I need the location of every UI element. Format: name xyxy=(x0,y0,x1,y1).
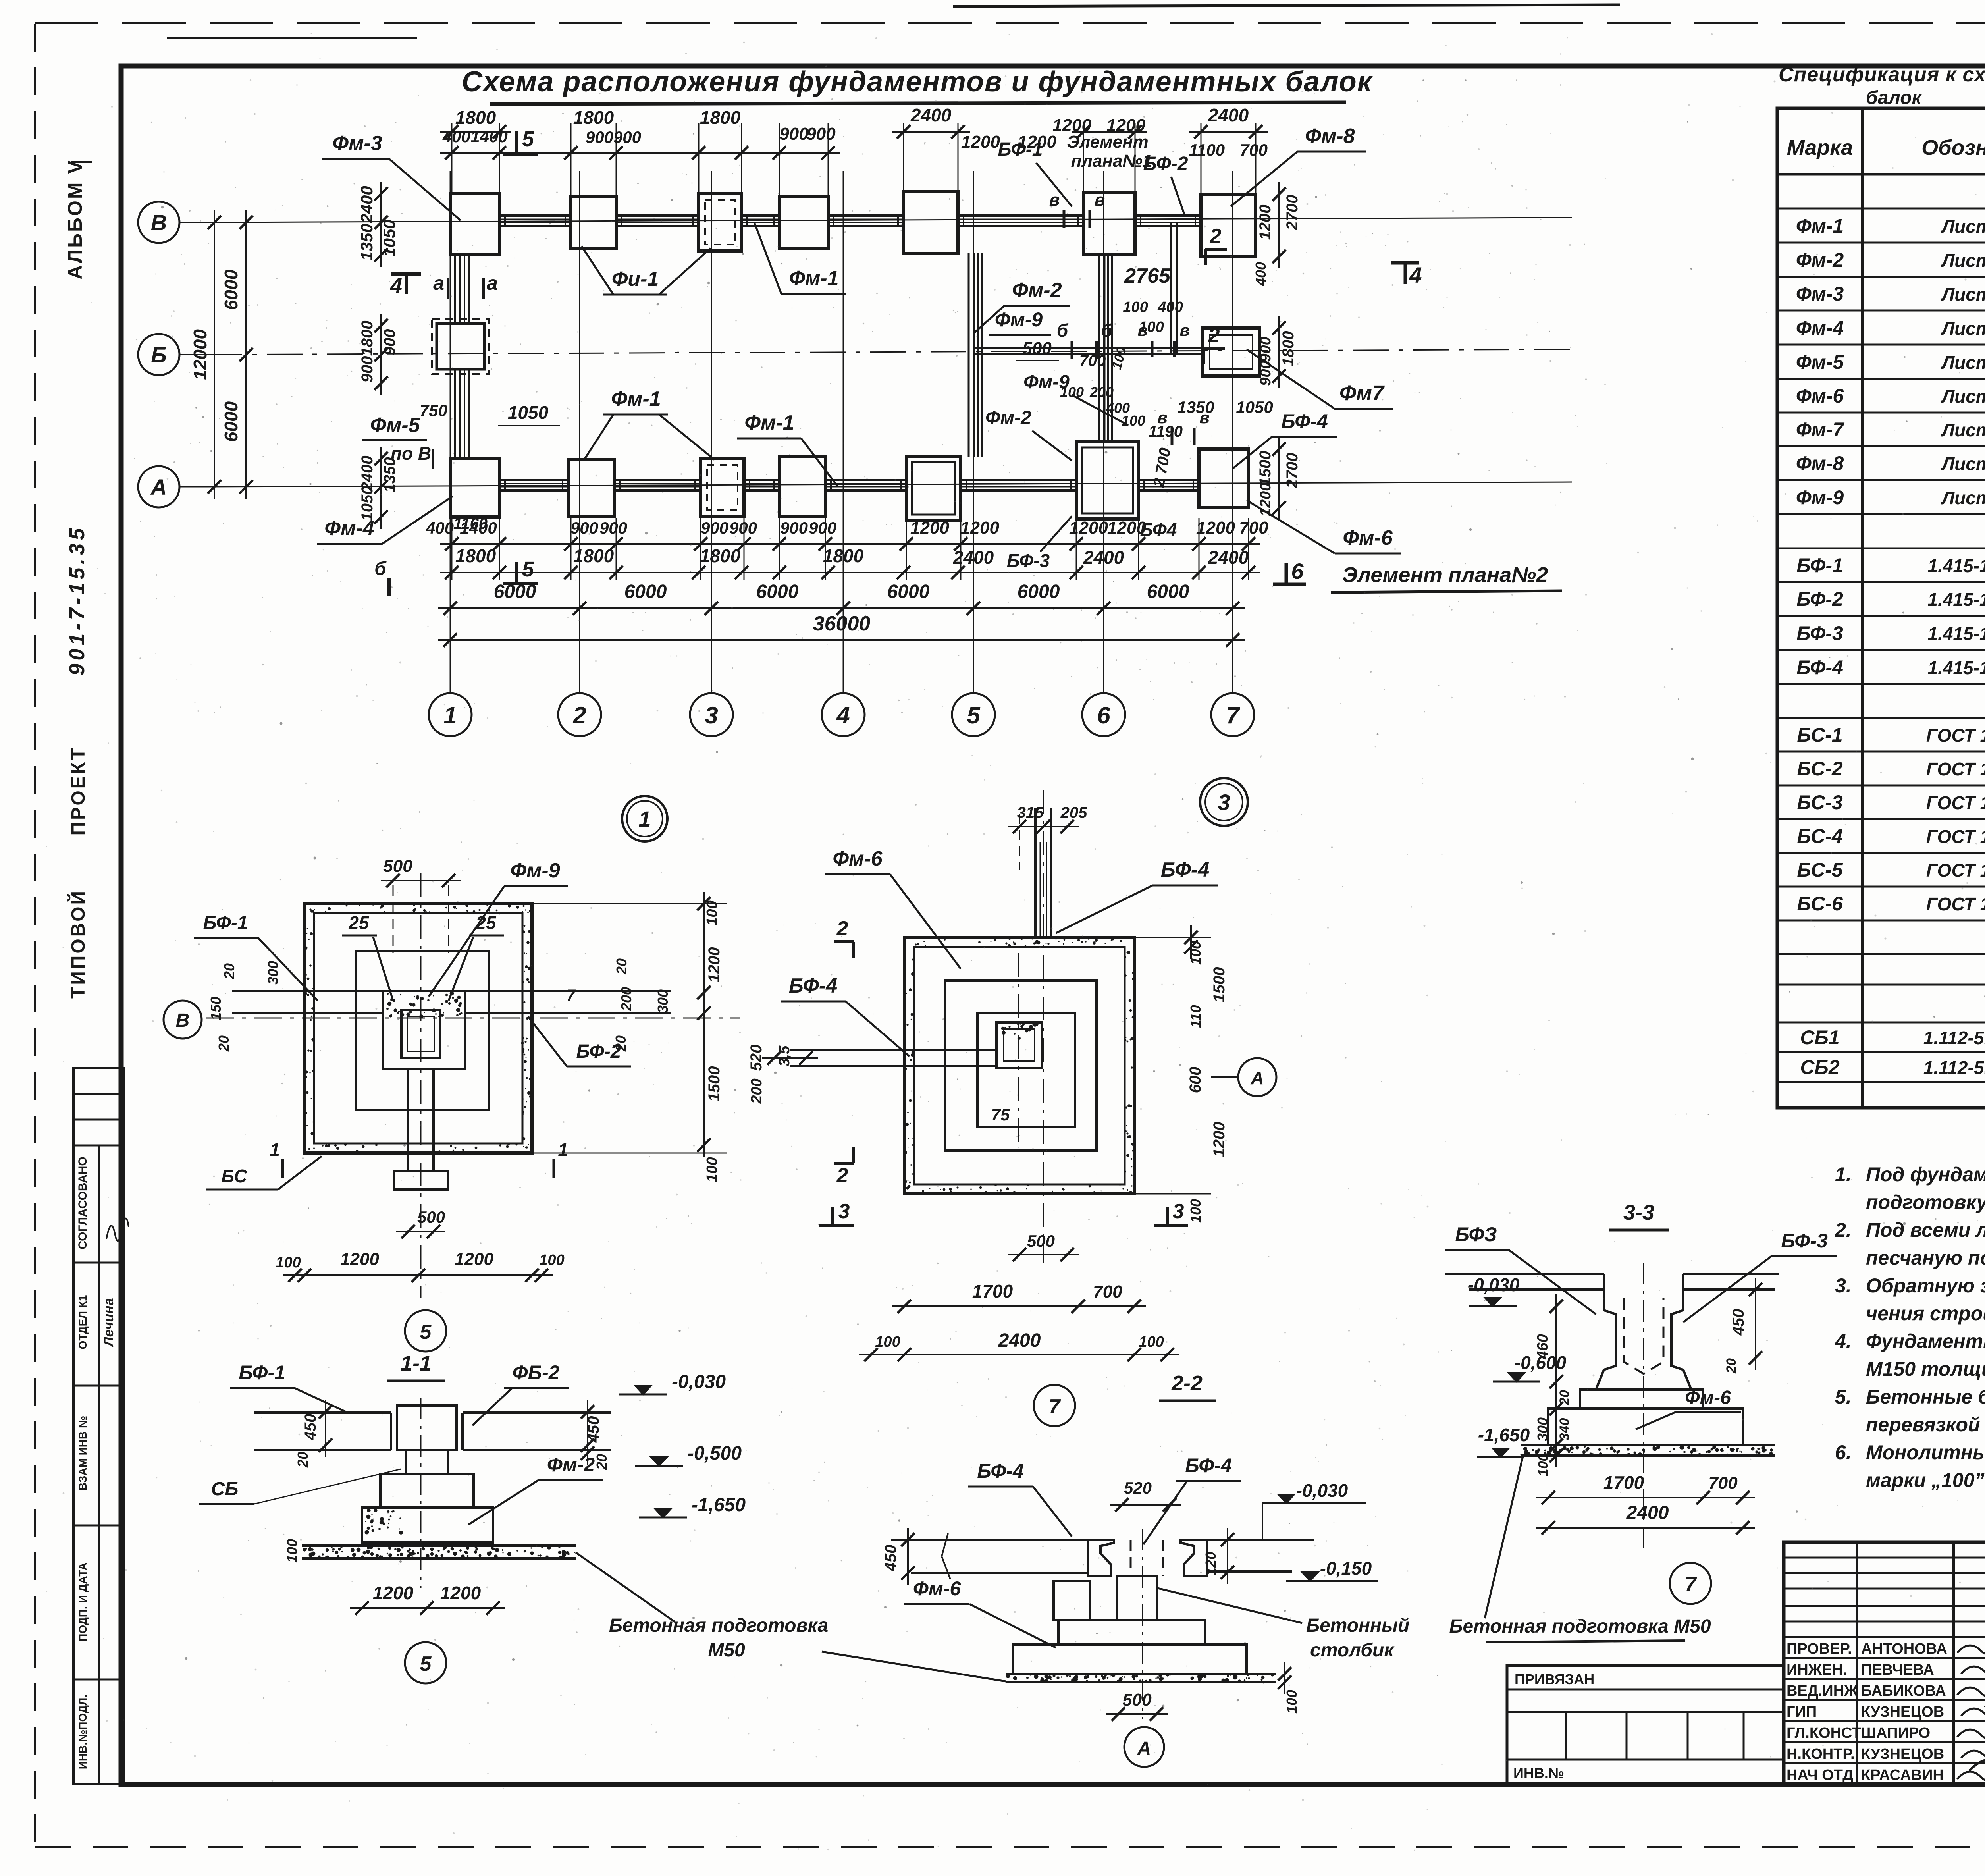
svg-text:Лист КЖ-4: Лист КЖ-4 xyxy=(1941,216,1985,237)
svg-text:900: 900 xyxy=(613,128,641,147)
svg-text:в: в xyxy=(1199,408,1209,427)
svg-text:БФ-2: БФ-2 xyxy=(1143,153,1188,174)
svg-text:Фи-1: Фи-1 xyxy=(612,268,659,291)
svg-text:Обозначение: Обозначение xyxy=(1921,136,1985,160)
svg-text:3.: 3. xyxy=(1835,1274,1852,1297)
svg-text:500: 500 xyxy=(1027,1232,1055,1250)
svg-text:36000: 36000 xyxy=(813,612,871,635)
svg-text:5: 5 xyxy=(967,702,981,729)
svg-text:Схема расположения фундаментов: Схема расположения фундаментов и фундаме… xyxy=(462,66,1373,98)
svg-text:1500: 1500 xyxy=(705,1066,723,1102)
svg-text:Бетонный: Бетонный xyxy=(1306,1615,1409,1636)
svg-text:3-3: 3-3 xyxy=(1623,1201,1654,1224)
svg-text:СБ1: СБ1 xyxy=(1800,1026,1839,1049)
svg-text:100: 100 xyxy=(1284,1690,1300,1714)
svg-text:Лист КЖ-7: Лист КЖ-7 xyxy=(1941,386,1985,407)
svg-text:2700: 2700 xyxy=(1284,195,1301,231)
svg-text:900: 900 xyxy=(570,519,598,537)
svg-text:700: 700 xyxy=(1239,518,1268,538)
svg-text:А: А xyxy=(1137,1738,1151,1759)
svg-text:Фм-7: Фм-7 xyxy=(1796,418,1845,441)
svg-text:1200: 1200 xyxy=(1069,518,1108,538)
svg-text:перевязкой швов не менее 30: перевязкой швов не менее 300мм. xyxy=(1866,1413,1985,1436)
svg-text:200: 200 xyxy=(748,1078,765,1104)
svg-text:200: 200 xyxy=(1089,384,1114,400)
svg-text:ВЗАМ ИНВ №: ВЗАМ ИНВ № xyxy=(77,1416,89,1490)
svg-text:6: 6 xyxy=(1291,559,1304,584)
svg-text:СОГЛАСОВАНО: СОГЛАСОВАНО xyxy=(76,1157,89,1249)
svg-text:200: 200 xyxy=(618,987,634,1011)
svg-text:20: 20 xyxy=(221,963,237,979)
svg-text:БС-6: БС-6 xyxy=(1797,893,1843,915)
svg-text:Спецификация к схеме расположе: Спецификация к схеме расположения фундам… xyxy=(1779,63,1985,86)
svg-text:75: 75 xyxy=(991,1105,1010,1124)
svg-text:1200: 1200 xyxy=(1257,483,1274,517)
svg-text:4: 4 xyxy=(390,274,402,298)
svg-text:2.: 2. xyxy=(1835,1219,1852,1241)
svg-text:НАЧ ОТД: НАЧ ОТД xyxy=(1786,1767,1853,1783)
svg-text:20: 20 xyxy=(594,1454,610,1470)
svg-text:1100: 1100 xyxy=(1189,141,1225,159)
svg-text:ГОСТ 13579-78: ГОСТ 13579-78 xyxy=(1926,894,1985,914)
svg-text:7: 7 xyxy=(1685,1573,1697,1596)
svg-text:Лист КЖ-5: Лист КЖ-5 xyxy=(1941,488,1985,508)
svg-text:700: 700 xyxy=(1079,352,1106,370)
svg-text:БФ-1: БФ-1 xyxy=(998,139,1043,160)
svg-text:750: 750 xyxy=(420,401,447,420)
svg-text:4: 4 xyxy=(1409,262,1422,287)
svg-text:6000: 6000 xyxy=(1018,581,1060,602)
svg-text:Под фундаментами под колонны п: Под фундаментами под колонны предусмотре… xyxy=(1866,1163,1985,1186)
svg-text:2400: 2400 xyxy=(1208,547,1249,568)
svg-text:БФ-4: БФ-4 xyxy=(1281,410,1328,432)
svg-text:900: 900 xyxy=(780,519,808,537)
svg-text:7: 7 xyxy=(567,987,576,1004)
svg-text:ПРИВЯЗАН: ПРИВЯЗАН xyxy=(1515,1671,1594,1687)
svg-text:1050: 1050 xyxy=(508,402,549,423)
svg-text:4: 4 xyxy=(836,702,850,729)
svg-text:Фм-1: Фм-1 xyxy=(744,411,794,434)
svg-text:25: 25 xyxy=(475,912,497,933)
svg-text:1.415-1; Вып.1: 1.415-1; Вып.1 xyxy=(1927,623,1985,644)
svg-text:300: 300 xyxy=(655,989,671,1013)
svg-text:М50: М50 xyxy=(708,1640,745,1661)
svg-text:6: 6 xyxy=(1097,702,1110,729)
svg-text:1: 1 xyxy=(558,1139,568,1160)
svg-text:А: А xyxy=(1250,1068,1264,1088)
svg-text:1500: 1500 xyxy=(1210,967,1228,1003)
svg-text:400: 400 xyxy=(1157,299,1183,316)
svg-text:БФ-4: БФ-4 xyxy=(1796,656,1843,679)
svg-text:А: А xyxy=(150,474,167,499)
svg-text:марки „100”.: марки „100”. xyxy=(1866,1469,1985,1491)
svg-text:7: 7 xyxy=(1049,1395,1061,1418)
svg-text:Фм-1: Фм-1 xyxy=(611,388,661,411)
svg-text:1050: 1050 xyxy=(380,220,399,256)
svg-text:700: 700 xyxy=(1093,1282,1122,1301)
svg-text:450: 450 xyxy=(302,1414,319,1441)
svg-text:плана№1: плана№1 xyxy=(1071,151,1152,171)
svg-text:-0,030: -0,030 xyxy=(1468,1274,1520,1295)
svg-text:БФЗ: БФЗ xyxy=(1455,1223,1497,1246)
svg-text:Фм-2: Фм-2 xyxy=(985,407,1031,428)
svg-text:2700: 2700 xyxy=(1284,453,1301,489)
svg-text:ИНВ.№: ИНВ.№ xyxy=(1513,1765,1564,1781)
svg-text:б: б xyxy=(1057,320,1069,341)
svg-text:1800: 1800 xyxy=(455,107,496,128)
svg-text:ГОСТ 13579-78: ГОСТ 13579-78 xyxy=(1926,725,1985,746)
svg-text:1.415-1; Вып.1: 1.415-1; Вып.1 xyxy=(1927,555,1985,576)
svg-text:1200: 1200 xyxy=(340,1249,379,1269)
svg-text:БФ-4: БФ-4 xyxy=(1185,1454,1232,1477)
svg-text:ПРОЕКТ: ПРОЕКТ xyxy=(68,746,89,835)
svg-text:3: 3 xyxy=(705,702,718,729)
svg-text:1800: 1800 xyxy=(823,546,864,566)
svg-text:340: 340 xyxy=(1557,1418,1572,1441)
svg-text:1800: 1800 xyxy=(455,546,496,566)
svg-text:900: 900 xyxy=(701,519,728,537)
svg-text:ПРОВЕР.: ПРОВЕР. xyxy=(1786,1641,1852,1657)
svg-text:1800: 1800 xyxy=(700,546,741,566)
svg-text:900: 900 xyxy=(381,329,399,356)
svg-text:900: 900 xyxy=(806,124,836,144)
svg-text:в: в xyxy=(1137,321,1147,339)
svg-text:ПЕВЧЕВА: ПЕВЧЕВА xyxy=(1861,1662,1934,1678)
svg-text:400: 400 xyxy=(426,519,454,537)
svg-text:АЛЬБОМ V: АЛЬБОМ V xyxy=(64,159,86,279)
svg-text:ГОСТ 13579-78: ГОСТ 13579-78 xyxy=(1926,860,1985,881)
svg-text:205: 205 xyxy=(1060,804,1087,821)
svg-text:2400: 2400 xyxy=(910,105,952,125)
svg-text:Фм-1: Фм-1 xyxy=(1796,215,1844,237)
svg-text:1800: 1800 xyxy=(700,107,741,128)
svg-text:Фм-4: Фм-4 xyxy=(1796,317,1844,339)
svg-text:6000: 6000 xyxy=(887,581,930,602)
svg-text:Лечина: Лечина xyxy=(101,1298,116,1347)
svg-text:500: 500 xyxy=(417,1208,445,1226)
svg-text:2: 2 xyxy=(836,1164,848,1187)
svg-text:БС-4: БС-4 xyxy=(1797,825,1842,847)
svg-text:20: 20 xyxy=(216,1035,232,1052)
svg-text:Лист КЖ-7: Лист КЖ-7 xyxy=(1941,284,1985,305)
svg-text:Фм-9: Фм-9 xyxy=(1796,486,1844,509)
svg-text:3: 3 xyxy=(838,1200,850,1223)
svg-text:ШАПИРО: ШАПИРО xyxy=(1861,1725,1930,1741)
svg-text:110: 110 xyxy=(1187,1005,1204,1028)
svg-text:2: 2 xyxy=(1210,225,1222,248)
svg-text:КУЗНЕЦОВ: КУЗНЕЦОВ xyxy=(1861,1746,1944,1762)
svg-text:Фм-5: Фм-5 xyxy=(1796,351,1844,373)
svg-text:20: 20 xyxy=(1724,1358,1739,1374)
svg-text:5: 5 xyxy=(522,557,534,581)
svg-text:БС-3: БС-3 xyxy=(1797,791,1843,814)
svg-text:400: 400 xyxy=(1253,262,1269,286)
svg-text:ГОСТ 13579-78: ГОСТ 13579-78 xyxy=(1926,759,1985,779)
svg-text:Фм-8: Фм-8 xyxy=(1796,452,1844,474)
svg-text:Марка: Марка xyxy=(1787,136,1853,160)
svg-text:БФ-3: БФ-3 xyxy=(1007,550,1050,571)
svg-text:100: 100 xyxy=(704,1157,721,1182)
svg-text:300: 300 xyxy=(265,961,281,985)
svg-text:100: 100 xyxy=(704,900,721,925)
svg-text:Лист КЖ-7: Лист КЖ-7 xyxy=(1941,318,1985,339)
svg-text:Бетонная подготовка М50: Бетонная подготовка М50 xyxy=(1449,1616,1711,1637)
svg-text:-0,030: -0,030 xyxy=(672,1371,726,1392)
svg-text:-0,150: -0,150 xyxy=(1320,1558,1372,1579)
svg-text:СБ: СБ xyxy=(211,1479,239,1500)
svg-text:3,5: 3,5 xyxy=(776,1045,793,1067)
svg-text:1200: 1200 xyxy=(961,132,1000,152)
svg-text:5.: 5. xyxy=(1835,1386,1852,1408)
svg-text:Фм-6: Фм-6 xyxy=(1685,1387,1731,1408)
svg-text:1500: 1500 xyxy=(1257,451,1274,486)
svg-text:700: 700 xyxy=(1708,1473,1738,1493)
svg-text:6000: 6000 xyxy=(624,581,667,602)
svg-text:150: 150 xyxy=(208,997,224,1020)
svg-text:315: 315 xyxy=(1017,804,1044,821)
svg-text:2765: 2765 xyxy=(1124,264,1171,287)
svg-text:СБ2: СБ2 xyxy=(1800,1056,1840,1078)
svg-text:2: 2 xyxy=(572,702,586,729)
svg-text:20: 20 xyxy=(613,958,630,975)
svg-text:700: 700 xyxy=(1240,141,1268,159)
svg-text:БФ-4: БФ-4 xyxy=(977,1460,1024,1482)
svg-text:500: 500 xyxy=(383,856,412,876)
svg-text:Фм-9: Фм-9 xyxy=(510,859,560,882)
svg-text:1800: 1800 xyxy=(573,107,614,128)
svg-text:БФ-3: БФ-3 xyxy=(1796,622,1843,644)
svg-text:ОТДЕЛ К1: ОТДЕЛ К1 xyxy=(77,1295,89,1350)
svg-text:3: 3 xyxy=(1218,790,1230,815)
svg-text:Лист КЖ-6: Лист КЖ-6 xyxy=(1941,453,1985,474)
svg-text:1800: 1800 xyxy=(573,546,614,566)
svg-text:БФ-4: БФ-4 xyxy=(1161,858,1209,881)
svg-text:Фм-2: Фм-2 xyxy=(547,1454,595,1476)
svg-text:ГОСТ 13579-78: ГОСТ 13579-78 xyxy=(1926,792,1985,813)
svg-text:Элемент плана№2: Элемент плана№2 xyxy=(1342,563,1548,587)
svg-text:300: 300 xyxy=(1534,1417,1551,1441)
svg-text:В: В xyxy=(176,1010,190,1031)
svg-text:100: 100 xyxy=(1122,413,1145,429)
svg-text:1.415-1; Вып.1: 1.415-1; Вып.1 xyxy=(1927,657,1985,678)
svg-text:столбик: столбик xyxy=(1310,1640,1395,1661)
svg-text:100: 100 xyxy=(284,1539,300,1563)
svg-text:БАБИКОВА: БАБИКОВА xyxy=(1861,1683,1946,1699)
svg-text:100: 100 xyxy=(276,1254,301,1271)
svg-text:1200: 1200 xyxy=(440,1583,481,1603)
svg-text:В: В xyxy=(151,210,167,235)
svg-text:1200: 1200 xyxy=(910,518,949,538)
svg-text:600: 600 xyxy=(1187,1067,1204,1093)
svg-text:460: 460 xyxy=(1534,1334,1551,1359)
svg-text:100: 100 xyxy=(1139,1334,1164,1350)
svg-text:БФ4: БФ4 xyxy=(1140,519,1177,540)
svg-text:Фм-6: Фм-6 xyxy=(833,847,883,870)
svg-text:1700: 1700 xyxy=(1603,1472,1644,1493)
svg-text:Фм-3: Фм-3 xyxy=(1796,283,1844,305)
svg-text:1200: 1200 xyxy=(960,518,999,538)
svg-text:Фм-9: Фм-9 xyxy=(995,308,1043,331)
svg-text:12000: 12000 xyxy=(190,329,210,380)
svg-text:100: 100 xyxy=(1187,1199,1204,1223)
svg-text:1050: 1050 xyxy=(358,486,376,521)
svg-text:1050: 1050 xyxy=(1236,398,1273,416)
svg-text:Бетонные блоки укладывать: Бетонные блоки укладывать на цементном р… xyxy=(1866,1386,1985,1408)
svg-text:100: 100 xyxy=(1123,299,1148,316)
svg-text:901-7-15.35: 901-7-15.35 xyxy=(65,525,89,675)
svg-text:25: 25 xyxy=(348,912,370,933)
svg-text:520: 520 xyxy=(1124,1479,1152,1497)
svg-text:1800: 1800 xyxy=(358,321,376,356)
svg-text:1800: 1800 xyxy=(1280,331,1297,366)
svg-text:5: 5 xyxy=(420,1321,432,1344)
svg-text:Монолитные участки между бло: Монолитные участки между блоками выполня… xyxy=(1866,1441,1985,1463)
svg-text:4.: 4. xyxy=(1835,1330,1852,1352)
svg-text:100: 100 xyxy=(1187,941,1204,965)
svg-text:в: в xyxy=(1157,408,1167,427)
svg-text:Фм-2: Фм-2 xyxy=(1012,279,1062,302)
svg-text:М150 толщиной 20мм.: М150 толщиной 20мм. xyxy=(1866,1358,1985,1380)
svg-text:БС-1: БС-1 xyxy=(1797,724,1842,746)
svg-text:Обратную засыпку пазух фунд: Обратную засыпку пазух фундаментов произ… xyxy=(1866,1274,1985,1297)
svg-text:900: 900 xyxy=(599,519,627,537)
svg-text:Лист КЖ-4: Лист КЖ-4 xyxy=(1941,352,1985,373)
svg-text:1-1: 1-1 xyxy=(401,1352,432,1375)
svg-text:Фм-2: Фм-2 xyxy=(1796,249,1844,271)
svg-text:Н.КОНТР.: Н.КОНТР. xyxy=(1786,1746,1855,1762)
svg-text:2400: 2400 xyxy=(357,186,376,223)
svg-text:КРАСАВИН: КРАСАВИН xyxy=(1861,1767,1944,1783)
svg-text:АНТОНОВА: АНТОНОВА xyxy=(1861,1641,1947,1657)
svg-text:1200: 1200 xyxy=(1196,518,1235,538)
svg-text:900: 900 xyxy=(779,124,809,144)
svg-text:Фм-1: Фм-1 xyxy=(789,267,838,290)
svg-text:БС: БС xyxy=(221,1166,247,1186)
svg-text:1: 1 xyxy=(270,1139,280,1160)
svg-text:1200: 1200 xyxy=(373,1583,414,1603)
svg-text:в: в xyxy=(1095,190,1105,210)
svg-text:900: 900 xyxy=(1257,337,1274,362)
svg-text:1: 1 xyxy=(443,702,457,729)
svg-text:Фм-3: Фм-3 xyxy=(332,132,382,155)
svg-text:1200: 1200 xyxy=(455,1249,493,1269)
svg-text:Фм-6: Фм-6 xyxy=(913,1577,962,1600)
svg-text:БФ-1: БФ-1 xyxy=(203,912,248,933)
svg-text:ПОДП. И ДАТА: ПОДП. И ДАТА xyxy=(77,1562,89,1641)
svg-text:1200: 1200 xyxy=(1257,205,1274,240)
svg-text:подготовку из бетона М50.: подготовку из бетона М50. xyxy=(1866,1191,1985,1213)
svg-text:1400: 1400 xyxy=(470,127,507,146)
svg-text:900: 900 xyxy=(1257,361,1274,386)
svg-text:1400: 1400 xyxy=(460,519,497,537)
svg-text:ГЛ.КОНСТ: ГЛ.КОНСТ xyxy=(1786,1725,1861,1741)
svg-text:1700: 1700 xyxy=(972,1281,1013,1301)
svg-text:Фм-6: Фм-6 xyxy=(1796,385,1844,407)
svg-text:900: 900 xyxy=(729,519,757,537)
svg-text:900: 900 xyxy=(586,128,613,147)
svg-text:ФБ-2: ФБ-2 xyxy=(513,1361,560,1384)
svg-text:3: 3 xyxy=(1173,1200,1184,1223)
svg-text:1350: 1350 xyxy=(357,224,376,260)
svg-text:6000: 6000 xyxy=(1147,581,1189,602)
svg-text:2: 2 xyxy=(836,917,848,940)
svg-text:1200: 1200 xyxy=(705,947,723,983)
svg-text:БС-5: БС-5 xyxy=(1797,859,1843,881)
svg-text:БФ-4: БФ-4 xyxy=(789,974,837,997)
svg-text:а: а xyxy=(433,272,444,294)
svg-text:Лист КЖ-6: Лист КЖ-6 xyxy=(1941,420,1985,440)
svg-text:6000: 6000 xyxy=(221,269,241,310)
svg-text:БС-2: БС-2 xyxy=(1797,758,1843,780)
svg-text:2400: 2400 xyxy=(953,547,994,568)
svg-text:5: 5 xyxy=(522,127,534,151)
svg-text:20: 20 xyxy=(295,1452,311,1468)
svg-text:6000: 6000 xyxy=(221,401,241,442)
svg-text:б: б xyxy=(1101,320,1113,341)
svg-text:-1,650: -1,650 xyxy=(692,1494,746,1515)
svg-text:БФ-3: БФ-3 xyxy=(1781,1230,1828,1252)
svg-text:450: 450 xyxy=(1730,1309,1747,1336)
svg-text:2400: 2400 xyxy=(1083,547,1124,568)
svg-text:2 700: 2 700 xyxy=(1150,447,1174,489)
svg-text:1.415-1; Вып.1: 1.415-1; Вып.1 xyxy=(1927,589,1985,610)
svg-text:2-2: 2-2 xyxy=(1171,1371,1203,1395)
svg-text:100: 100 xyxy=(539,1252,564,1269)
svg-text:900: 900 xyxy=(809,519,836,537)
svg-text:Элемент: Элемент xyxy=(1067,132,1149,152)
svg-text:БФ-1: БФ-1 xyxy=(239,1361,285,1384)
svg-text:Бетонная подготовка: Бетонная подготовка xyxy=(609,1615,828,1636)
svg-text:7: 7 xyxy=(1226,702,1240,729)
svg-text:Фм7: Фм7 xyxy=(1339,381,1385,405)
svg-text:100: 100 xyxy=(875,1334,900,1350)
svg-text:БФ-2: БФ-2 xyxy=(1796,588,1843,610)
svg-text:500: 500 xyxy=(1122,1690,1152,1710)
svg-text:БФ-1: БФ-1 xyxy=(1796,554,1843,576)
svg-text:ИНЖЕН.: ИНЖЕН. xyxy=(1786,1662,1847,1678)
svg-text:Лист КЖ-5: Лист КЖ-5 xyxy=(1941,250,1985,271)
svg-text:Фм-6: Фм-6 xyxy=(1343,526,1393,549)
svg-text:6.: 6. xyxy=(1835,1441,1852,1463)
svg-text:чения строительного мусора,: чения строительного мусора, слоями не бо… xyxy=(1866,1302,1985,1325)
svg-text:Б: Б xyxy=(151,342,167,367)
svg-text:1200: 1200 xyxy=(1210,1122,1228,1157)
svg-text:а: а xyxy=(487,272,498,294)
svg-text:Фм-8: Фм-8 xyxy=(1305,125,1355,148)
svg-text:2400: 2400 xyxy=(1208,105,1249,125)
svg-text:Фм-4: Фм-4 xyxy=(324,517,374,540)
svg-text:6000: 6000 xyxy=(756,581,799,602)
svg-text:ТИПОВОЙ: ТИПОВОЙ xyxy=(67,889,89,999)
svg-text:100: 100 xyxy=(1536,1454,1551,1477)
svg-text:ГИП: ГИП xyxy=(1786,1704,1817,1720)
svg-text:1: 1 xyxy=(638,806,651,831)
svg-text:в: в xyxy=(1179,321,1189,339)
svg-text:-0,500: -0,500 xyxy=(688,1443,742,1464)
svg-text:2: 2 xyxy=(1208,324,1220,347)
svg-text:2400: 2400 xyxy=(998,1330,1041,1351)
svg-text:900: 900 xyxy=(358,356,376,383)
svg-text:1.112-5.4.09.000: 1.112-5.4.09.000 xyxy=(1923,1028,1985,1048)
svg-text:песчаную подготовку толщиной: песчаную подготовку толщиной 100мм. xyxy=(1866,1247,1985,1269)
svg-text:Фундаментные балки укладыват: Фундаментные балки укладывать на слой це… xyxy=(1866,1330,1985,1352)
svg-text:20: 20 xyxy=(613,1035,629,1052)
svg-text:-0,030: -0,030 xyxy=(1296,1480,1348,1501)
svg-text:-1,650: -1,650 xyxy=(1478,1425,1530,1445)
svg-text:400: 400 xyxy=(442,127,470,146)
svg-text:20: 20 xyxy=(1557,1390,1572,1406)
svg-text:б: б xyxy=(374,558,387,579)
